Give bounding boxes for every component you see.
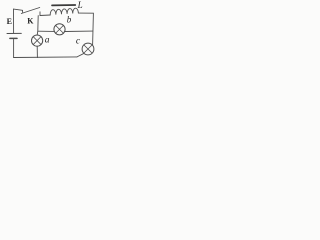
wire switch to coil xyxy=(40,14,50,17)
wire coil to top-right corner and right rail xyxy=(78,13,93,45)
switch K xyxy=(21,8,40,16)
wire lamp b rail right xyxy=(65,30,93,32)
wire left rail upper xyxy=(13,9,15,33)
wire top-left rail xyxy=(14,9,23,10)
svg-text:K: K xyxy=(27,16,34,25)
battery E long plate xyxy=(7,32,21,34)
inductor core xyxy=(52,4,75,6)
wire diagonal to lamp c xyxy=(77,53,84,57)
wire lamp a to bottom rail xyxy=(36,46,38,57)
svg-text:L: L xyxy=(77,0,83,10)
lamp b xyxy=(54,24,65,35)
wire lamp b rail left xyxy=(38,30,54,32)
wire bottom rail xyxy=(14,56,77,59)
svg-text:b: b xyxy=(67,15,72,25)
lamp a xyxy=(31,35,42,46)
svg-text:E: E xyxy=(7,17,12,26)
wire node branch vertical below switch xyxy=(37,16,38,35)
inductor L coil xyxy=(50,8,78,15)
wire left rail lower xyxy=(13,39,15,58)
lamp c xyxy=(82,43,94,55)
svg-text:a: a xyxy=(45,35,50,45)
battery E short plate xyxy=(10,37,17,39)
paper background xyxy=(0,0,105,63)
